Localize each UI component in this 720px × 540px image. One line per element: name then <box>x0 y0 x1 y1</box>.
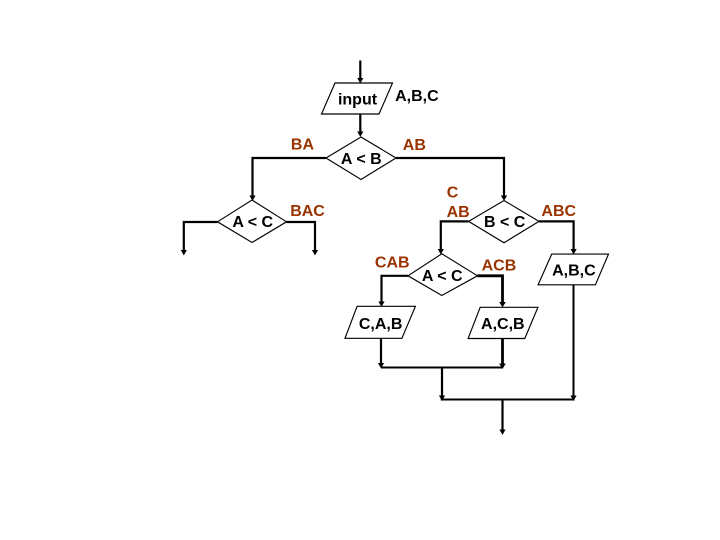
wire B&lt;C right branch to A,B,C output <box>539 221 577 254</box>
wire final output arrow <box>499 400 505 435</box>
svg-text:A < B: A < B <box>341 151 382 168</box>
svg-text:A < C: A < C <box>232 214 273 231</box>
parallelogram output C,A,B <box>345 306 415 338</box>
wire A&lt;B left branch to A&lt;C <box>249 158 326 201</box>
wire merge line 1 <box>381 367 503 369</box>
wire A&lt;C2 left branch to C,A,B <box>378 276 408 307</box>
parallelogram output A,B,C <box>538 254 608 285</box>
parallelogram output A,C,B <box>468 307 538 338</box>
svg-text:A,B,C: A,B,C <box>552 262 596 279</box>
diamond B&lt;C <box>469 201 539 243</box>
wire B&lt;C left branch to A&lt;C 2 <box>438 221 469 254</box>
diamond A&lt;C left <box>218 200 287 243</box>
svg-text:C: C <box>447 185 459 202</box>
wire A&lt;C right out (dangling, BAC) <box>287 222 319 255</box>
svg-text:ABC: ABC <box>541 203 576 220</box>
svg-text:CAB: CAB <box>375 254 410 271</box>
svg-text:BAC: BAC <box>290 203 325 220</box>
wire A&lt;C2 right branch to A,C,B <box>478 276 506 308</box>
wire A&lt;C left out (dangling) <box>181 222 218 255</box>
svg-text:A,C,B: A,C,B <box>481 316 525 333</box>
svg-text:input: input <box>338 91 378 108</box>
wire input to A&lt;B diamond <box>357 114 363 137</box>
svg-text:BA: BA <box>291 137 315 154</box>
wire merge1 down <box>439 368 445 401</box>
wire C,A,B down to merge <box>378 338 384 368</box>
svg-text:B < C: B < C <box>484 214 526 231</box>
svg-text:A < C: A < C <box>422 268 463 285</box>
svg-text:AB: AB <box>403 137 426 154</box>
svg-text:A,B,C: A,B,C <box>395 88 439 105</box>
input parallelogram <box>322 83 393 114</box>
diamond A&lt;B <box>326 137 396 180</box>
wire A,C,B down to merge <box>499 339 506 369</box>
wire A&lt;B right branch to B&lt;C <box>396 158 507 201</box>
svg-text:C,A,B: C,A,B <box>359 316 403 333</box>
wire A,B,C down to merge 2 <box>570 285 576 401</box>
wire merge line 2 <box>441 399 575 401</box>
svg-text:ACB: ACB <box>482 257 517 274</box>
svg-text:AB: AB <box>447 204 470 221</box>
wire into input (top arrow) <box>357 61 363 84</box>
diamond A&lt;C second <box>408 254 478 296</box>
